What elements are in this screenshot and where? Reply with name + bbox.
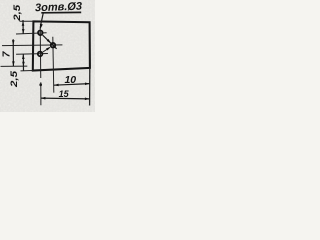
svg-text:15: 15 — [59, 89, 70, 99]
svg-text:3отв.Ø3: 3отв.Ø3 — [35, 1, 82, 15]
svg-text:2,5: 2,5 — [9, 70, 20, 88]
svg-text:2,5: 2,5 — [12, 4, 23, 22]
svg-text:10: 10 — [64, 74, 76, 86]
